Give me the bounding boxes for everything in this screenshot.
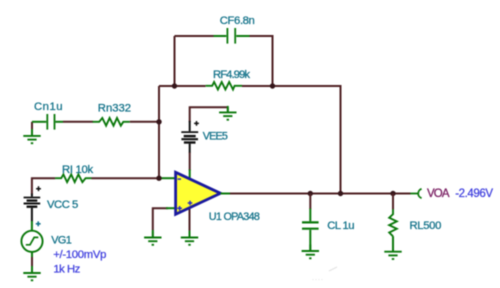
wire: VCC corner to RI <box>32 178 55 194</box>
ground (+ input) <box>152 230 154 237</box>
plus mark VEE <box>194 121 199 126</box>
svg-text:RI 10k: RI 10k <box>62 164 94 176</box>
svg-text:....: .... <box>312 275 324 282</box>
svg-text:CL 1u: CL 1u <box>327 220 354 232</box>
ground (RL) <box>384 245 401 259</box>
minus mark (inverting input) <box>178 178 181 180</box>
wire: CF top right segment <box>250 36 273 86</box>
capacitor CF 6.8n <box>214 28 250 44</box>
svg-text:VEE5: VEE5 <box>203 130 228 142</box>
battery VCC 5 <box>24 194 41 222</box>
wire: CF top left segment <box>175 35 214 37</box>
junction: CF right x RF row <box>270 83 275 88</box>
ground (VEE5) <box>227 107 229 112</box>
wire: RF row right to feedback corner <box>242 86 341 194</box>
wire: RF row left <box>159 85 206 87</box>
wire: Rn to inverting node <box>130 121 159 123</box>
svg-text:VG1: VG1 <box>51 235 72 247</box>
ground (VG1) <box>23 267 40 281</box>
wire: output row <box>230 193 411 195</box>
battery VEE5 wire to ground <box>190 107 228 122</box>
junction: RL <box>390 191 395 196</box>
plus mark VG1 <box>36 221 41 226</box>
pin stub: op-amp non-inverting input <box>166 207 175 209</box>
ground (op-amp V-) <box>181 231 198 245</box>
VG1 waveform <box>26 237 39 244</box>
wire: left vertical node (inverting net) <box>158 86 160 178</box>
wire: VG1 to ground <box>31 252 33 257</box>
wire: CF loop left vertical <box>174 36 176 86</box>
svg-text:RL500: RL500 <box>410 220 442 232</box>
ground (CL) <box>302 245 319 259</box>
pin stub: op-amp inverting input <box>159 177 175 179</box>
ground (Cn) <box>31 122 33 130</box>
svg-text:1k Hz: 1k Hz <box>53 264 80 276</box>
plus mark (supply) <box>188 201 193 206</box>
svg-text:VCC 5: VCC 5 <box>47 199 78 211</box>
plus mark VCC <box>36 186 41 191</box>
resistor RF 4.99k <box>206 82 242 90</box>
pin stub: VOA terminal <box>410 193 417 195</box>
wire: Cn to Rn <box>63 121 93 123</box>
pin stub: op-amp output <box>221 193 233 195</box>
svg-text:Cn1u: Cn1u <box>34 101 63 113</box>
junction: Rn x left vertical <box>156 119 161 124</box>
capacitor CL 1u <box>309 194 311 210</box>
svg-text:RF4.99k: RF4.99k <box>213 69 250 81</box>
svg-text:U1 OPA348: U1 OPA348 <box>209 211 260 223</box>
pin stub: op-amp V+ <box>189 170 191 179</box>
plus mark (non-inverting input) <box>177 206 182 211</box>
junction: RI x left vertical x op-amp minus input <box>156 176 161 181</box>
resistor RL 500 <box>392 194 394 210</box>
svg-text:-2.496V: -2.496V <box>455 188 493 200</box>
wire: VEE to op-amp V+ pin <box>189 153 191 171</box>
terminal arc VOA <box>418 189 421 198</box>
source VG1 <box>21 231 42 252</box>
junction: feedback <box>338 191 343 196</box>
battery VEE5 <box>181 121 198 153</box>
wire: + input from ground corner <box>153 208 168 230</box>
op-amp U1 OPA348 <box>176 172 221 214</box>
svg-text:CF6.8n: CF6.8n <box>220 15 255 27</box>
resistor RI 10k <box>55 174 91 182</box>
wire: RI to inverting node <box>92 177 160 179</box>
resistor Rn 332 <box>93 118 130 126</box>
pin stub: op-amp V- to ground <box>189 209 191 231</box>
svg-text:+/-100mVp: +/-100mVp <box>53 249 106 261</box>
junction: CF left x RF row <box>172 83 177 88</box>
junction: CL <box>308 191 313 196</box>
svg-text:Rn332: Rn332 <box>98 103 131 115</box>
svg-text:VOA: VOA <box>427 188 450 200</box>
capacitor Cn 1u <box>32 114 63 130</box>
